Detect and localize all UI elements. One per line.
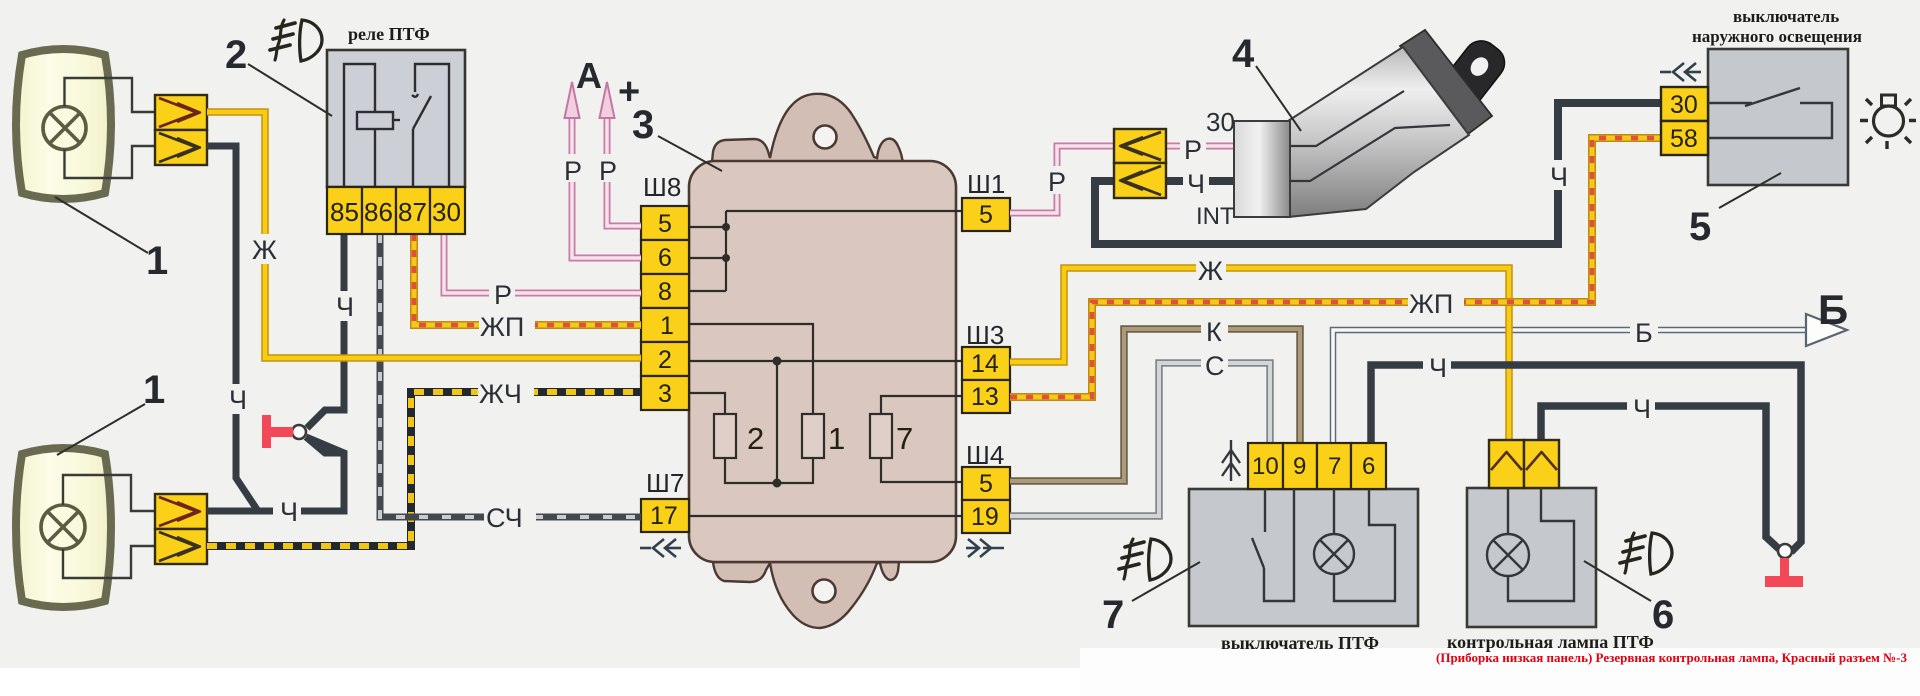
svg-text:6: 6 xyxy=(1362,453,1375,480)
fog lamp 1 (bottom) xyxy=(16,448,111,607)
svg-text:85: 85 xyxy=(330,197,359,227)
svg-text:87: 87 xyxy=(398,197,427,227)
svg-text:выключатель: выключатель xyxy=(1733,7,1839,26)
svg-text:30: 30 xyxy=(1206,107,1235,137)
connector boxes xyxy=(1489,440,1559,488)
connector at lamp 1 xyxy=(155,95,207,165)
svg-text:Р: Р xyxy=(1048,167,1066,197)
label 1 pointer (top lamp) xyxy=(55,197,148,253)
svg-text:30: 30 xyxy=(432,197,461,227)
svg-text:1: 1 xyxy=(828,421,845,456)
headlight symbol xyxy=(1860,95,1916,149)
fuse F2 xyxy=(714,414,736,458)
svg-text:30: 30 xyxy=(1670,91,1698,119)
label Б small on thin wire xyxy=(1630,316,1658,345)
ignition barrel xyxy=(1288,47,1469,217)
fog switch internals xyxy=(1252,489,1395,601)
junction dot on bus to fuse row xyxy=(773,357,782,366)
svg-text:9: 9 xyxy=(1293,453,1306,480)
svg-text:(Приборка низкая панель) Резер: (Приборка низкая панель) Резервная контр… xyxy=(1436,650,1907,665)
mounting unit body (component 3) xyxy=(689,94,956,628)
junction dot on fuse bottom bus xyxy=(773,479,782,488)
label К xyxy=(1201,315,1228,344)
ignition key xyxy=(1427,34,1512,126)
lamp 1 internal leads xyxy=(65,78,156,178)
wire Ч: control lamp to right ground xyxy=(1541,406,1779,549)
svg-text:6: 6 xyxy=(658,244,672,272)
svg-text:Ч: Ч xyxy=(336,292,354,322)
svg-text:Ш4: Ш4 xyxy=(966,440,1004,470)
wire Ч: ignition 30 feed loop to light switch pin 30 xyxy=(1095,103,1661,244)
wire ЖЧ: lamp2 bottom to Ш8/3 xyxy=(207,392,641,546)
multi-pin connector symbol xyxy=(1222,440,1240,481)
svg-text:Ж: Ж xyxy=(1198,256,1223,286)
svg-text:Р: Р xyxy=(494,280,512,310)
svg-text:5: 5 xyxy=(658,210,672,238)
relay internals: coil circuit xyxy=(344,64,449,187)
label 4 pointer xyxy=(1256,66,1301,131)
svg-text:5: 5 xyxy=(979,470,993,498)
relay box xyxy=(327,50,465,187)
fog lamp 1 (top) xyxy=(16,49,111,199)
label 5 pointer xyxy=(1719,173,1781,208)
label С xyxy=(1201,349,1228,378)
svg-text:2: 2 xyxy=(225,33,247,77)
svg-text:7: 7 xyxy=(1328,453,1341,480)
fog lamp icon near relay xyxy=(270,20,322,61)
connector arrow above pin 30 xyxy=(1660,63,1701,81)
svg-text:5: 5 xyxy=(1689,205,1711,249)
wire СЧ: relay 86 to Ш7/17 xyxy=(380,234,641,517)
svg-text:контрольная лампа ПТФ: контрольная лампа ПТФ xyxy=(1447,632,1654,652)
ground (right) red symbol xyxy=(1765,544,1803,587)
svg-text:Р: Р xyxy=(599,156,617,186)
svg-text:Ш7: Ш7 xyxy=(646,468,684,498)
svg-text:INT: INT xyxy=(1196,203,1235,230)
label 1 pointer (bottom lamp) xyxy=(57,404,145,455)
ground (left) red symbol xyxy=(262,410,345,453)
ignition face xyxy=(1234,121,1290,217)
wire Р: relay 30 pink to Ш8/8 xyxy=(444,234,641,293)
svg-text:Ч: Ч xyxy=(280,497,298,527)
pins 10 9 7 6 xyxy=(1248,443,1386,489)
svg-text:С: С xyxy=(1205,351,1225,381)
wire Р: connector to ignition switch xyxy=(1166,143,1234,150)
label СЧ xyxy=(484,502,536,531)
ignition lock cap xyxy=(1400,30,1492,134)
pink wire arrow А from Ш8/6 xyxy=(565,82,642,258)
label 7 pointer xyxy=(1132,562,1200,601)
label Р near ignition (vertical wire) xyxy=(1043,166,1069,194)
lamp 1 bulb symbol xyxy=(43,107,86,150)
wire Р: Ш1/5 pink to ignition connector xyxy=(1010,146,1114,213)
svg-text:Ч: Ч xyxy=(1429,353,1447,383)
label Р xyxy=(489,279,515,307)
svg-text:Б: Б xyxy=(1635,318,1653,348)
label 6 pointer xyxy=(1584,561,1651,601)
bottom tab hole xyxy=(813,580,836,603)
relay internals: switch contact xyxy=(412,129,414,187)
pink wire arrow + from Ш8/5 xyxy=(600,82,642,226)
svg-text:4: 4 xyxy=(1232,32,1255,76)
fuse F1 xyxy=(802,414,824,458)
wire Б: fog switch pin7 to arrow Б (thin double line) xyxy=(1333,330,1806,443)
wire: relay 85 black down to ground xyxy=(307,234,344,428)
connector arrow symbol below Ш4/19 xyxy=(966,539,1004,557)
internal contact lines xyxy=(1290,91,1450,181)
label Ч on ground horizontal xyxy=(273,496,301,524)
label Ч on feed vertical xyxy=(1544,160,1572,190)
svg-text:14: 14 xyxy=(971,350,999,378)
switch box xyxy=(1189,489,1418,626)
svg-text:Ч: Ч xyxy=(1550,162,1568,192)
wire Ж: lamp1 top yellow to Ш8/2 xyxy=(207,112,641,358)
svg-text:А: А xyxy=(576,55,602,96)
svg-text:2: 2 xyxy=(658,346,672,374)
svg-text:1: 1 xyxy=(146,239,168,283)
relay pins 85 86 87 30 xyxy=(327,187,465,234)
wire Ч: connector to ignition switch xyxy=(1166,177,1234,185)
svg-text:Ш3: Ш3 xyxy=(966,320,1004,350)
svg-text:Б: Б xyxy=(1818,286,1848,333)
svg-text:выключатель ПТФ: выключатель ПТФ xyxy=(1221,633,1379,653)
label Ж long xyxy=(1196,254,1226,283)
label 2 pointer xyxy=(248,64,332,116)
wire ЖП: relay 87 to Ш8/1 xyxy=(414,234,641,325)
svg-text:ЖЧ: ЖЧ xyxy=(479,379,522,409)
pins 30 and 58 xyxy=(1661,87,1708,121)
internal circuit lines of block xyxy=(689,211,962,516)
fog lamp icon near switch 7 xyxy=(1119,539,1171,580)
connector Ш4 pins 5,19 xyxy=(962,467,1010,500)
lamp box xyxy=(1467,488,1596,627)
svg-text:10: 10 xyxy=(1252,453,1279,480)
lamp 2 internal leads xyxy=(63,475,155,578)
label Ч on pin6 wire xyxy=(1423,351,1451,380)
wire ЖП long: Ш3/13 up over to light switch pin 58 xyxy=(1010,138,1661,397)
label Ж xyxy=(250,234,280,264)
fog lamp icon near lamp 6 xyxy=(1620,533,1672,574)
svg-text:17: 17 xyxy=(650,502,678,530)
svg-text:58: 58 xyxy=(1670,125,1698,153)
wire: lamp2 top black + joint horizontal to ground xyxy=(207,437,344,511)
svg-text:6: 6 xyxy=(1652,593,1674,637)
svg-text:19: 19 xyxy=(971,503,999,531)
svg-text:Ч: Ч xyxy=(229,385,247,415)
switch box xyxy=(1708,49,1848,185)
connector Ш7 pin 17 xyxy=(641,499,689,532)
wire С: Ш4/19 to fog switch pin 10 xyxy=(1010,363,1270,516)
svg-text:2: 2 xyxy=(747,421,764,456)
svg-text:Ч: Ч xyxy=(1187,169,1205,199)
connector Ш8 pins 5,6,8,1,2,3 xyxy=(641,206,689,410)
svg-text:7: 7 xyxy=(1102,593,1124,637)
connector (ignition) xyxy=(1114,129,1166,198)
label Ч on lamp1 wire xyxy=(222,384,250,414)
fuse F7 xyxy=(870,414,892,458)
top tab hole xyxy=(814,126,837,149)
label Ч on relay85 wire xyxy=(330,291,358,321)
svg-text:Ж: Ж xyxy=(252,235,277,265)
junction dot at Ш8 pin 6 branch xyxy=(722,254,730,262)
label Ч at switch xyxy=(1183,168,1209,194)
switch internals xyxy=(1708,88,1832,138)
svg-text:Ш1: Ш1 xyxy=(967,169,1005,199)
svg-text:1: 1 xyxy=(660,312,674,340)
label ЖП xyxy=(479,310,535,340)
connector Ш1 pin 5 xyxy=(962,198,1010,231)
lamp 2 bulb symbol xyxy=(41,505,85,549)
svg-text:13: 13 xyxy=(971,383,999,411)
control lamp internals xyxy=(1487,488,1574,601)
svg-text:1: 1 xyxy=(143,368,165,412)
svg-text:Ч: Ч xyxy=(1633,394,1651,424)
label ЖП long xyxy=(1408,288,1464,317)
wire: lamp1 black to ground (Ч) xyxy=(207,146,258,511)
svg-text:+: + xyxy=(618,71,640,113)
right side wire labels xyxy=(1043,134,1658,424)
svg-text:86: 86 xyxy=(364,197,393,227)
svg-text:ЖП: ЖП xyxy=(1409,289,1453,319)
svg-text:Ш8: Ш8 xyxy=(643,172,681,202)
connector arrow symbol below Ш7/17 xyxy=(640,539,681,557)
wire label patches + texts xyxy=(222,234,536,533)
svg-text:СЧ: СЧ xyxy=(486,503,523,533)
svg-text:реле ПТФ: реле ПТФ xyxy=(348,24,430,44)
junction dot at Ш8 pin 5 branch xyxy=(722,223,730,231)
svg-text:Р: Р xyxy=(564,156,582,186)
connector at lamp 2 xyxy=(155,494,207,564)
label ЖЧ xyxy=(478,377,534,407)
svg-text:ЖП: ЖП xyxy=(480,312,524,342)
svg-text:8: 8 xyxy=(658,278,672,306)
label Р at switch xyxy=(1180,134,1206,160)
svg-text:Р: Р xyxy=(1184,135,1202,165)
labels Р on arrows xyxy=(559,154,620,186)
svg-text:7: 7 xyxy=(896,421,913,456)
label 3 pointer xyxy=(658,136,722,171)
label Ч on control lamp ground wire xyxy=(1627,392,1655,421)
svg-text:5: 5 xyxy=(979,201,993,229)
connector Ш3 pins 14,13 xyxy=(962,347,1010,380)
arrow head Б xyxy=(1806,314,1847,346)
svg-text:наружного освещения: наружного освещения xyxy=(1692,27,1862,46)
wire Ж long: Ш3/14 up over to control lamp connector xyxy=(1010,268,1509,440)
wire К: Ш4/5 to fog switch pin 9 xyxy=(1010,329,1300,481)
wire Ч: fog switch pin 6 to right ground xyxy=(1371,365,1801,552)
svg-text:К: К xyxy=(1206,317,1222,347)
svg-text:3: 3 xyxy=(658,380,672,408)
